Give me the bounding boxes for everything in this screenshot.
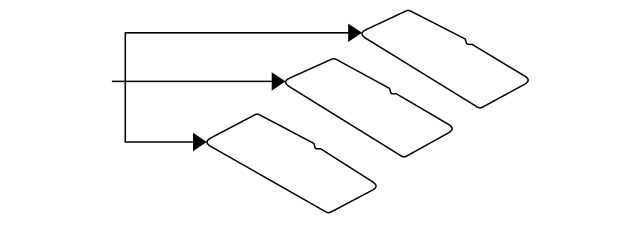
wire: middle branch bbox=[112, 80, 272, 82]
arrowhead: middle branch bbox=[272, 72, 286, 90]
card shape 2 (middle) with notch bbox=[286, 59, 453, 157]
wire: vertical trunk bbox=[124, 33, 126, 142]
card shape 3 (bottom) with notch bbox=[207, 114, 376, 213]
arrowhead: top branch bbox=[348, 24, 362, 42]
arrowhead: bottom branch bbox=[193, 133, 207, 151]
wire: top branch bbox=[125, 32, 349, 34]
card shape 1 (top) with notch bbox=[362, 10, 528, 107]
wire: bottom branch bbox=[125, 141, 195, 143]
